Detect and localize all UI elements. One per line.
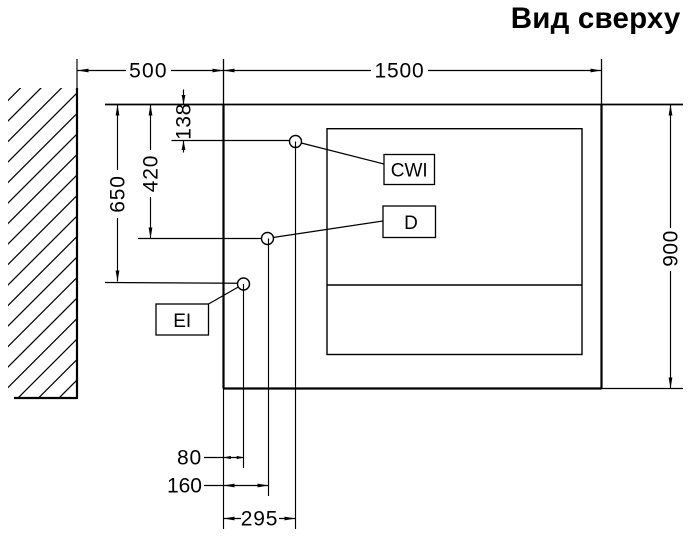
svg-text:1500: 1500: [375, 60, 425, 83]
svg-text:Вид сверху: Вид сверху: [511, 2, 681, 35]
counter left edge: [222, 105, 224, 389]
inner box divider: [327, 284, 582, 286]
D drop line: [268, 239, 270, 497]
CWI leader: [301, 143, 384, 164]
CWI label box: [384, 155, 435, 185]
dim 900 line: [670, 105, 672, 229]
dim 295 line: [224, 518, 242, 520]
counter right extension up: [601, 59, 603, 105]
EI leader: [209, 287, 239, 304]
inner appliance box: [327, 129, 582, 355]
dim 80 line: [204, 457, 244, 459]
svg-text:500: 500: [129, 60, 168, 83]
D point circle: [262, 233, 274, 245]
counter left extension up: [223, 59, 225, 105]
svg-text:160: 160: [167, 475, 202, 498]
svg-text:650: 650: [107, 175, 130, 212]
counter left extension down: [223, 389, 225, 530]
CWI drop line: [295, 142, 297, 530]
svg-text:138: 138: [173, 103, 196, 140]
counter top edge: [105, 104, 683, 106]
EI drop line: [243, 284, 245, 468]
counter bottom extension to 900 dim: [602, 388, 684, 390]
EI level line: [105, 282, 238, 285]
CWI point circle: [290, 136, 302, 148]
dim 420 line: [150, 105, 152, 151]
counter right edge: [600, 105, 602, 389]
svg-text:CWI: CWI: [391, 161, 428, 182]
wall extension line (500 dim left): [76, 59, 78, 88]
svg-text:900: 900: [660, 230, 683, 267]
wall bottom edge: [14, 397, 78, 399]
D label box: [383, 206, 436, 238]
counter bottom edge: [224, 387, 602, 389]
dim 138 outside arrows: [183, 90, 185, 105]
svg-text:80: 80: [177, 447, 202, 470]
dim 1500 line: [224, 70, 372, 72]
svg-text:EI: EI: [173, 311, 191, 332]
wall right edge: [76, 88, 78, 398]
dim 650 line: [117, 105, 119, 171]
dim 160 line: [204, 485, 268, 487]
EI point circle: [238, 278, 250, 290]
EI label box: [156, 304, 209, 335]
wall hatching: [0, 0, 489, 428]
dim 500 line: [78, 70, 127, 72]
svg-text:420: 420: [140, 155, 163, 192]
svg-text:D: D: [404, 213, 418, 234]
D level line: [138, 238, 262, 240]
svg-text:295: 295: [241, 508, 278, 531]
CWI level line: [172, 140, 290, 142]
D leader: [273, 221, 383, 238]
